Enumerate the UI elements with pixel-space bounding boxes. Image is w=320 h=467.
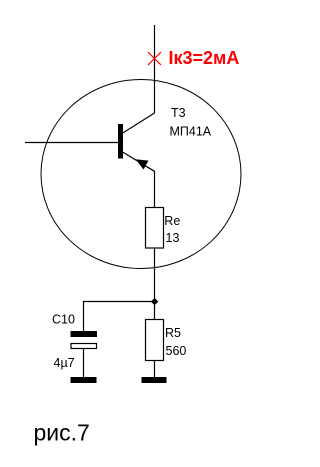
svg-text:Iк3=2мА: Iк3=2мА: [169, 48, 240, 68]
svg-text:Т3: Т3: [171, 106, 186, 120]
svg-text:4µ7: 4µ7: [54, 356, 75, 370]
svg-text:Re: Re: [164, 214, 180, 228]
svg-text:560: 560: [166, 344, 187, 358]
svg-text:R5: R5: [165, 326, 181, 340]
svg-text:рис.7: рис.7: [34, 420, 90, 446]
svg-text:13: 13: [166, 231, 180, 245]
svg-text:C10: C10: [52, 313, 75, 327]
svg-text:МП41А: МП41А: [170, 125, 212, 139]
